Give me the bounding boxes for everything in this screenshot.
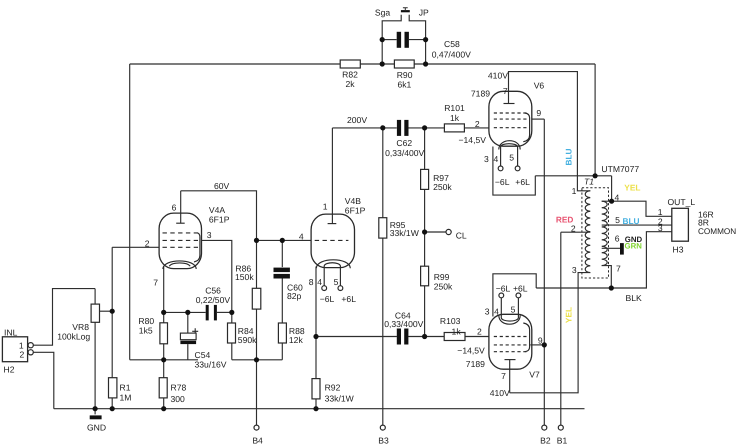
svg-text:BLU: BLU: [623, 216, 640, 226]
svg-text:GND: GND: [87, 423, 106, 433]
svg-text:3: 3: [485, 306, 490, 316]
svg-text:7189: 7189: [471, 88, 490, 98]
svg-text:R1: R1: [120, 383, 131, 393]
svg-text:200V: 200V: [347, 115, 367, 125]
svg-text:2: 2: [477, 326, 482, 336]
svg-text:3: 3: [207, 230, 212, 240]
svg-text:6F1P: 6F1P: [345, 206, 366, 216]
svg-text:4: 4: [317, 277, 322, 287]
svg-text:0,33/400V: 0,33/400V: [385, 148, 424, 158]
svg-text:7189: 7189: [466, 359, 485, 369]
svg-text:150k: 150k: [235, 272, 254, 282]
svg-text:B1: B1: [557, 435, 568, 445]
svg-text:R99: R99: [434, 272, 450, 282]
svg-text:C62: C62: [396, 138, 412, 148]
svg-text:8: 8: [309, 277, 314, 287]
svg-text:BLU: BLU: [564, 148, 574, 165]
svg-text:YEL: YEL: [564, 307, 574, 323]
svg-text:4: 4: [615, 193, 620, 203]
svg-text:0,47/400V: 0,47/400V: [432, 49, 471, 59]
svg-text:5: 5: [509, 153, 514, 163]
svg-text:6: 6: [172, 202, 177, 212]
svg-text:33u/16V: 33u/16V: [195, 359, 227, 369]
svg-text:6: 6: [615, 233, 620, 243]
svg-text:100kLog: 100kLog: [57, 332, 90, 342]
svg-text:60V: 60V: [214, 181, 230, 191]
svg-text:0,22/50V: 0,22/50V: [196, 295, 231, 305]
svg-text:H2: H2: [4, 365, 15, 375]
svg-text:C58: C58: [444, 39, 460, 49]
svg-text:5: 5: [615, 215, 620, 225]
svg-text:RED: RED: [556, 215, 574, 225]
svg-text:YEL: YEL: [624, 183, 640, 193]
svg-text:R103: R103: [440, 316, 461, 326]
svg-text:250k: 250k: [434, 282, 453, 292]
svg-text:82p: 82p: [287, 291, 302, 301]
svg-text:7: 7: [501, 371, 506, 381]
svg-text:2: 2: [571, 223, 576, 233]
svg-text:B2: B2: [540, 435, 551, 445]
svg-text:−6L: −6L: [496, 284, 511, 294]
svg-text:5: 5: [511, 304, 516, 314]
svg-text:7: 7: [153, 278, 158, 288]
svg-text:0,33/400V: 0,33/400V: [384, 319, 423, 329]
svg-text:R101: R101: [444, 103, 465, 113]
svg-text:V7: V7: [529, 370, 540, 380]
svg-text:UTM7077: UTM7077: [601, 164, 639, 174]
svg-text:R82: R82: [342, 69, 358, 79]
svg-text:1k5: 1k5: [139, 326, 153, 336]
svg-text:8R: 8R: [698, 217, 709, 227]
svg-text:V4B: V4B: [345, 196, 362, 206]
svg-text:VR8: VR8: [72, 322, 89, 332]
svg-text:B4: B4: [252, 435, 263, 445]
svg-text:7: 7: [616, 263, 621, 273]
svg-text:2: 2: [475, 119, 480, 129]
svg-text:CL: CL: [456, 231, 467, 241]
svg-text:−14,5V: −14,5V: [457, 345, 485, 355]
svg-text:−6L: −6L: [495, 177, 510, 187]
svg-text:410V: 410V: [490, 388, 510, 398]
svg-text:COMMON: COMMON: [698, 227, 736, 236]
svg-text:4: 4: [299, 231, 304, 241]
svg-text:4: 4: [494, 154, 499, 164]
svg-text:GRN: GRN: [625, 242, 643, 251]
svg-text:3: 3: [572, 265, 577, 275]
svg-text:OUT_L: OUT_L: [668, 197, 696, 207]
svg-text:590k: 590k: [238, 335, 257, 345]
svg-text:5: 5: [334, 277, 339, 287]
svg-text:12k: 12k: [289, 335, 304, 345]
svg-text:T1: T1: [584, 176, 594, 186]
svg-text:300: 300: [171, 394, 186, 404]
svg-text:+6L: +6L: [515, 177, 530, 187]
svg-text:3: 3: [484, 154, 489, 164]
svg-text:9: 9: [538, 335, 543, 345]
svg-text:−14,5V: −14,5V: [459, 135, 487, 145]
svg-text:−6L: −6L: [320, 294, 335, 304]
svg-text:33k/1W: 33k/1W: [325, 394, 355, 404]
svg-text:V6: V6: [534, 80, 545, 90]
svg-text:1: 1: [572, 186, 577, 196]
svg-text:R78: R78: [171, 383, 187, 393]
svg-text:6k1: 6k1: [397, 79, 411, 89]
svg-text:BLK: BLK: [626, 293, 643, 303]
svg-text:+6L: +6L: [341, 294, 356, 304]
svg-text:3: 3: [658, 223, 663, 233]
svg-text:+6L: +6L: [513, 284, 528, 294]
svg-text:1M: 1M: [120, 393, 132, 403]
svg-text:Sga: Sga: [375, 7, 391, 17]
svg-text:6F1P: 6F1P: [209, 215, 230, 225]
svg-text:2k: 2k: [345, 79, 355, 89]
svg-text:JP: JP: [419, 7, 429, 17]
svg-text:INL: INL: [4, 328, 18, 338]
svg-text:1: 1: [323, 202, 328, 212]
svg-text:B3: B3: [378, 435, 389, 445]
svg-text:410V: 410V: [488, 70, 508, 80]
svg-text:7: 7: [503, 86, 508, 96]
svg-text:H3: H3: [673, 245, 684, 255]
svg-text:4: 4: [494, 306, 499, 316]
svg-text:9: 9: [536, 108, 541, 118]
svg-text:33k/1W: 33k/1W: [390, 228, 420, 238]
svg-text:1k: 1k: [452, 326, 462, 336]
svg-text:R92: R92: [325, 383, 341, 393]
svg-text:250k: 250k: [433, 182, 452, 192]
svg-text:1k: 1k: [450, 113, 460, 123]
svg-text:2: 2: [145, 238, 150, 248]
svg-text:2: 2: [20, 350, 25, 360]
svg-text:R90: R90: [397, 70, 413, 80]
